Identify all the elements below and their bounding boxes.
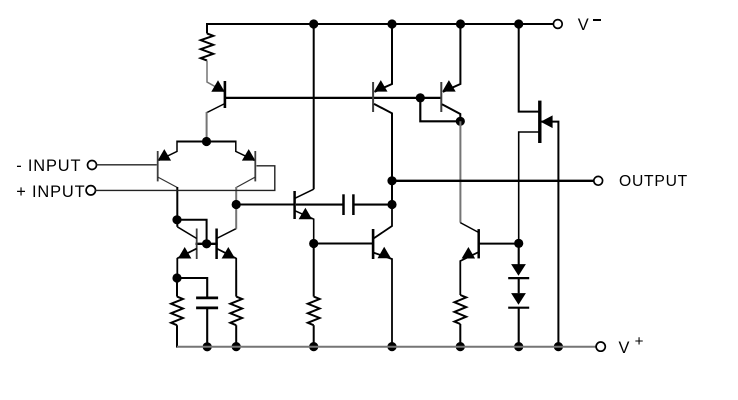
- wire R4 bottom: [313, 325, 315, 346]
- transistor Qb emitter: [443, 24, 461, 92]
- JFET drain lead: [519, 24, 539, 112]
- wire OUTPUT line: [392, 180, 594, 182]
- JFET source lead: [519, 132, 539, 243]
- resistor R1: [201, 34, 214, 61]
- wire Q1 base line to mirror bases: [226, 97, 441, 99]
- transistor Q5 collector: [176, 220, 178, 227]
- node mirror bases: [202, 239, 211, 248]
- node JFET source / Qd base / diodes: [514, 239, 523, 248]
- wire mirror base bar tie: [196, 243, 218, 245]
- transistor Q1 emitter arrow: [211, 80, 224, 92]
- resistor R5: [454, 295, 466, 324]
- wire C2 left lead: [296, 204, 344, 206]
- JFET gate lead: [542, 122, 559, 347]
- transistor Qa collector: [374, 104, 392, 181]
- wire Q6 collector up: [235, 205, 237, 229]
- capacitor C1 top plate: [196, 297, 218, 300]
- node mirror base tie: [416, 93, 425, 102]
- wire R3 top: [235, 270, 237, 297]
- transistor Q3 base bar: [254, 151, 256, 181]
- capacitor C2 right plate: [352, 194, 355, 215]
- transistor Qd emitter: [460, 252, 478, 295]
- transistor Qb base bar: [440, 82, 442, 112]
- transistor Q7 emitter arrow: [299, 208, 313, 220]
- wire common emitter horizontal: [177, 141, 236, 143]
- label + INPUT: [16, 183, 85, 202]
- junction top rail x313: [309, 19, 318, 28]
- terminal OUTPUT: [594, 176, 603, 185]
- JFET gate arrow: [541, 115, 553, 128]
- wire V+ rail: [177, 346, 596, 348]
- transistor Qc base bar: [372, 229, 375, 259]
- resistor R3: [230, 297, 242, 326]
- transistor Qd collector slant: [460, 223, 478, 233]
- transistor Qb collector: [442, 104, 460, 121]
- transistor Qa emitter: [375, 24, 393, 92]
- transistor Q6 emitter arrow: [222, 247, 236, 259]
- transistor Q5 base bar: [196, 229, 198, 260]
- wire V- rail: [207, 23, 553, 25]
- label V-: [578, 16, 589, 35]
- wire R1 bottom to Q1 emitter: [207, 61, 224, 92]
- transistor Qc emitter arrow: [378, 247, 392, 258]
- wire R5 bottom: [459, 324, 461, 347]
- junction R5 / V+ rail: [456, 342, 465, 351]
- transistor Qa base bar: [372, 82, 374, 112]
- transistor Q1 base bar: [224, 81, 227, 108]
- transistor Q6 emitter: [217, 249, 237, 271]
- wire Q5 collector slant: [177, 227, 196, 239]
- diode D1: [508, 264, 529, 278]
- junction R4 / V+ rail: [309, 342, 318, 351]
- transistor Qa emitter arrow: [374, 80, 388, 92]
- capacitor C1 bottom plate: [196, 307, 218, 310]
- transistor Qc emitter: [373, 253, 392, 347]
- node Q2 collector / mirror tie: [172, 215, 181, 224]
- wire Q2 emitter jog: [159, 141, 178, 161]
- transistor Qd base bar: [477, 229, 480, 258]
- terminal + INPUT: [86, 186, 95, 195]
- transistor Q7 emitter: [295, 211, 314, 244]
- power terminal V-: [553, 20, 562, 29]
- label V+: [619, 339, 630, 358]
- resistor R4: [308, 297, 320, 326]
- transistor Qc collector: [374, 205, 393, 239]
- transistor Qd emitter arrow: [462, 247, 476, 259]
- resistor R2: [171, 297, 183, 326]
- wire mirror diode connection: [420, 98, 460, 121]
- junction Qc emitter / V+ rail: [387, 342, 396, 351]
- wire Q7 collector riser: [313, 24, 315, 189]
- node Q3 collector / Q7 base: [232, 200, 241, 209]
- node OUTPUT junction: [387, 176, 396, 185]
- capacitor C2 left plate: [342, 194, 345, 215]
- junction top rail x519: [514, 19, 523, 28]
- wire output node down: [391, 181, 393, 205]
- wire C1 branch: [177, 278, 207, 298]
- JFET channel bar: [538, 101, 541, 143]
- wire R2 top: [176, 278, 178, 297]
- transistor Q2 collector: [158, 177, 178, 188]
- transistor Q1 collector: [207, 104, 225, 113]
- node input pair common emitters: [202, 137, 211, 146]
- wire Qc base line: [314, 243, 373, 245]
- wire diode chain top: [518, 243, 520, 264]
- wire Q2 collector drop: [176, 187, 178, 220]
- wire -input lead: [96, 164, 157, 166]
- wire R1 top: [206, 23, 208, 34]
- power terminal V+: [596, 342, 605, 351]
- wire Q3 collector drop: [235, 187, 237, 205]
- node C2 / Qc collector junction: [387, 200, 396, 209]
- transistor Q6 base bar: [215, 229, 218, 260]
- transistor Q3 emitter arrow: [242, 149, 256, 161]
- wire mirror diode tie: [177, 220, 207, 244]
- wire Q3 emitter jog: [236, 141, 255, 161]
- node Q5 emitter / R2 top: [172, 273, 181, 282]
- transistor Q5 emitter: [177, 249, 196, 279]
- junction R3 / V+ rail: [232, 342, 241, 351]
- wire C1 bottom: [206, 308, 208, 347]
- diode D2: [508, 293, 529, 308]
- junction C1 / V+ rail: [203, 342, 212, 351]
- transistor Q7 collector slant: [295, 189, 314, 198]
- wire Q7 base line: [236, 204, 294, 206]
- label - INPUT: [16, 157, 81, 176]
- wire Q1 collector drop: [206, 112, 208, 142]
- wire D2 to rail: [518, 308, 520, 347]
- transistor Q3 collector: [236, 177, 255, 188]
- wire R3 bottom: [235, 325, 237, 346]
- label OUTPUT: [619, 173, 688, 191]
- transistor Q2 base bar: [157, 151, 159, 181]
- junction top rail x460: [456, 19, 465, 28]
- wire Qd base line: [479, 243, 519, 245]
- wire R2 bottom: [176, 325, 178, 347]
- transistor Q6 collector: [217, 229, 237, 239]
- junction JFET gate / V+ rail: [554, 342, 563, 351]
- transistor Q7 base bar: [293, 191, 296, 219]
- transistor Qb emitter arrow: [442, 80, 456, 92]
- wire Qb collector to Qd collector: [459, 121, 461, 222]
- junction top rail x392: [387, 19, 396, 28]
- wire C2 right lead: [353, 204, 392, 206]
- wire Q7 emitter to R4: [313, 244, 315, 297]
- transistor Q2 emitter arrow: [158, 149, 172, 161]
- wire +input lead and route to Q3 base: [95, 166, 275, 191]
- wire D1 to D2: [518, 278, 520, 293]
- junction diodes / V+ rail: [514, 342, 523, 351]
- transistor Q5 emitter arrow: [178, 247, 192, 259]
- node Qb collector: [456, 117, 465, 126]
- node Q7 emitter / Qc base: [309, 239, 318, 248]
- terminal - INPUT: [88, 161, 97, 170]
